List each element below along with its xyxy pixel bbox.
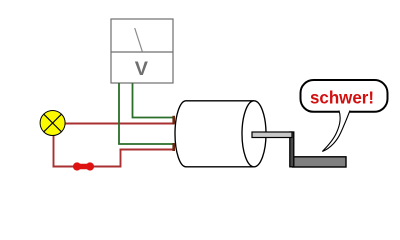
weight slab — [293, 157, 347, 167]
motor M1 body — [175, 101, 254, 167]
motor shaft — [252, 132, 292, 138]
wire red: to motor bottom terminal — [120, 149, 175, 151]
motor terminal (top) — [172, 116, 175, 125]
motor terminal (bottom) — [172, 143, 175, 151]
wire red: bottom horizontal — [53, 166, 121, 168]
svg-text:schwer!: schwer! — [310, 88, 374, 108]
svg-text:V: V — [135, 58, 149, 80]
wire red: lamp bottom down — [53, 124, 55, 167]
lamp L1 — [40, 111, 65, 136]
fuse/shunt F1 (thick red bar) — [73, 162, 94, 170]
voltmeter U1 — [111, 19, 173, 83]
voltmeter needle — [135, 28, 143, 51]
speech bubble tail — [322, 110, 350, 151]
wire green: voltmeter right to motor top terminal — [133, 83, 175, 118]
wire red: lamp right to motor top terminal — [53, 123, 174, 125]
crank arm (vertical bar) — [290, 132, 294, 167]
speech bubble — [301, 80, 388, 112]
motor M1 front face — [242, 101, 266, 167]
wire green: voltmeter left to motor bottom terminal — [119, 83, 174, 144]
wire red: vertical up at x=120 — [120, 150, 122, 168]
